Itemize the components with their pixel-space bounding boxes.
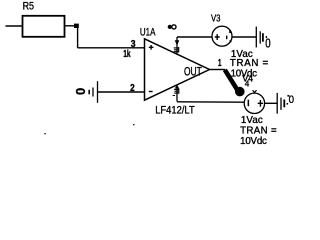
svg-text:1: 1 <box>218 57 222 69</box>
svg-text:LF412/LT: LF412/LT <box>155 105 195 117</box>
op-amp + input mark <box>149 45 154 50</box>
svg-text:R5: R5 <box>23 1 34 13</box>
svg-text:TRAN =: TRAN = <box>230 58 269 69</box>
wire: input to R5 <box>6 25 23 27</box>
svg-text:TRAN =: TRAN = <box>240 125 277 136</box>
wire: pin 8 to V3 <box>177 36 212 38</box>
op-amp - input mark <box>149 91 153 93</box>
svg-text:2: 2 <box>130 83 135 94</box>
ground 0 (left) <box>89 81 97 103</box>
junction dot <box>74 24 79 28</box>
label 0 (V3 ground) <box>265 36 270 51</box>
svg-text:10Vdc: 10Vdc <box>240 136 267 147</box>
wire: V4 to ground <box>265 102 277 104</box>
V3 value text <box>230 49 269 80</box>
junction dot (output node) <box>235 87 245 97</box>
wire: junction down <box>77 26 79 48</box>
svg-text:0: 0 <box>289 94 294 106</box>
voltage source V4 <box>244 90 264 113</box>
wire: to op-amp pin 3 <box>78 47 145 49</box>
svg-text:U1A: U1A <box>140 27 156 39</box>
ground 0 (V3) <box>256 27 263 48</box>
label V4 <box>242 74 253 89</box>
svg-text:0: 0 <box>73 88 88 95</box>
wire: left ground to pin 2 <box>98 91 145 93</box>
wire: output pin 1 <box>210 69 226 71</box>
label 0 (V4 ground) <box>287 94 294 106</box>
resistor R5 <box>23 16 65 37</box>
pin number 8 (rotated) <box>168 25 176 29</box>
op-amp U1A triangle <box>145 39 210 100</box>
svg-text:3: 3 <box>131 39 136 50</box>
pin number 4 (rotated glyph) <box>173 89 179 96</box>
thick wire: output to junction <box>225 70 238 91</box>
svg-text:0: 0 <box>265 37 270 51</box>
svg-text:V3: V3 <box>211 13 221 24</box>
op-amp V- pin stub (pin 4) <box>175 85 180 102</box>
svg-text:4: 4 <box>245 80 250 89</box>
svg-text:1k: 1k <box>123 48 130 60</box>
V4 value text <box>240 115 277 147</box>
wire: pin 4 rail to V4 <box>177 101 244 103</box>
ground 0 (V4) <box>277 93 284 114</box>
voltage source V3 <box>212 26 232 46</box>
svg-text:OUT: OUT <box>184 66 202 78</box>
grid dots <box>44 133 45 134</box>
wire: V3 to ground <box>232 36 256 38</box>
op-amp V+ pin stub (pin 8) <box>174 37 180 55</box>
wire: R5 to junction <box>65 25 79 27</box>
